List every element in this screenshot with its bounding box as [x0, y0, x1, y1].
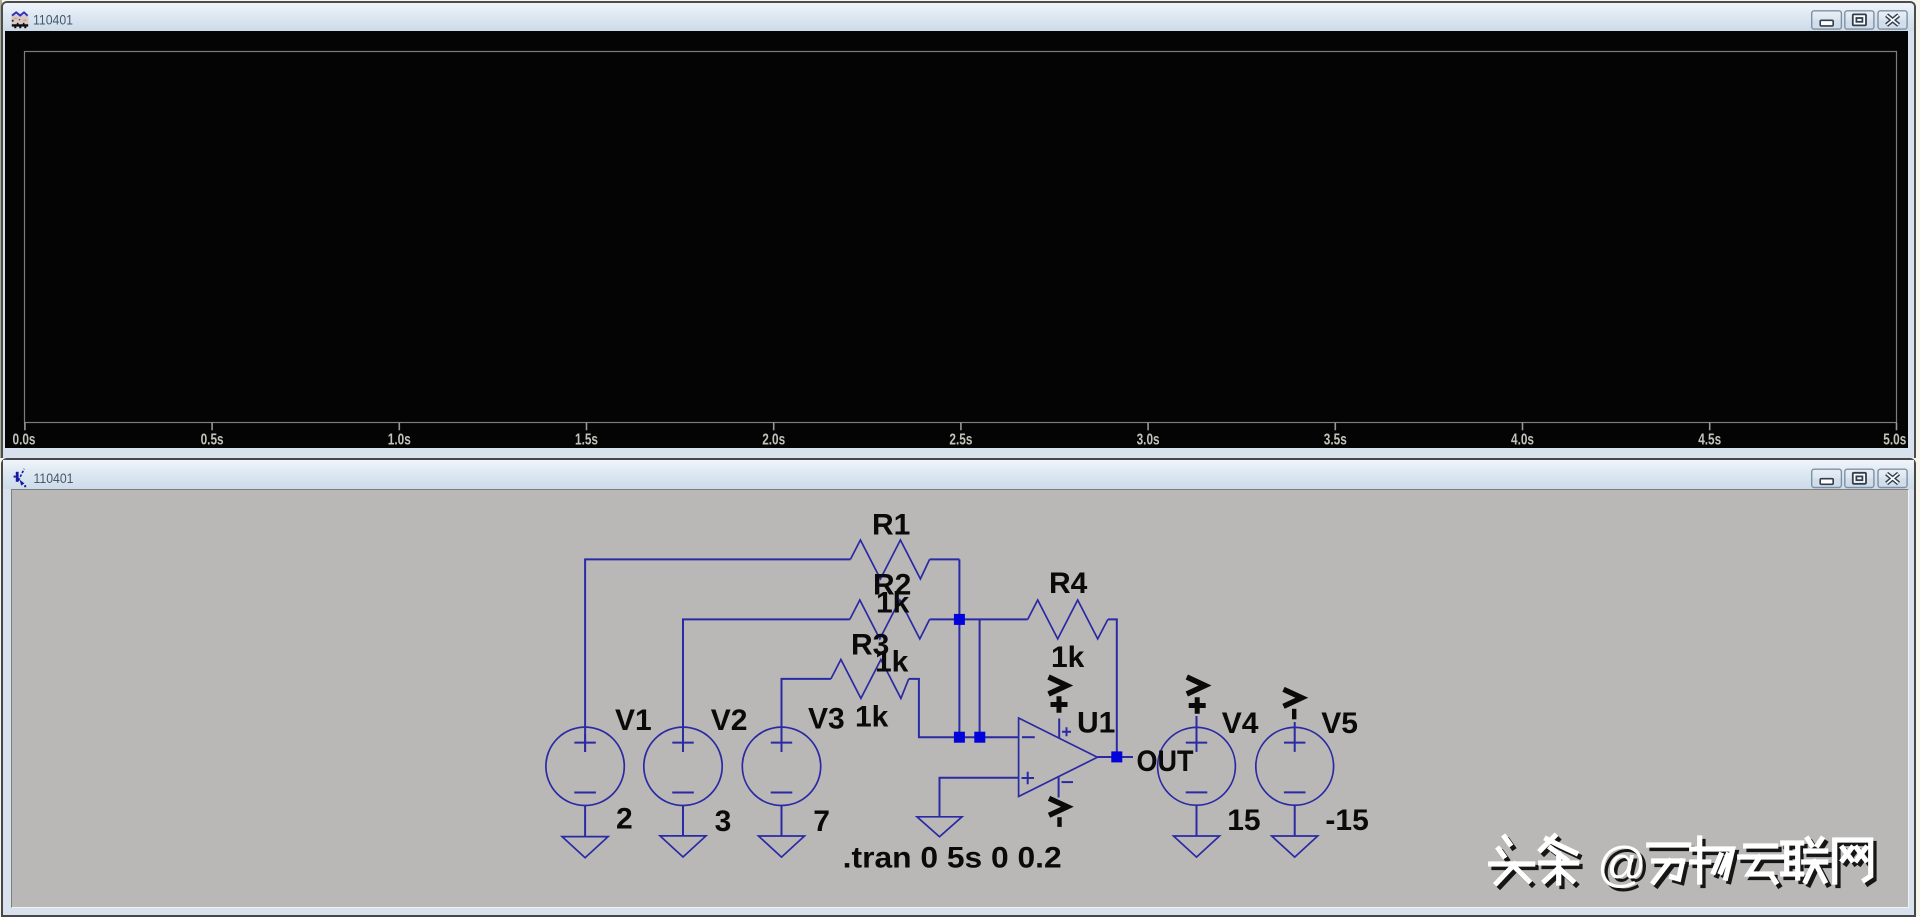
wire R1 node down to inverting node — [958, 559, 960, 737]
wire V5 bottom — [1294, 805, 1296, 836]
window W1 restore button — [1845, 11, 1874, 29]
window W1 title icon (waveform) — [12, 12, 29, 28]
resistor R1 — [850, 540, 929, 579]
voltage source V4 — [1158, 727, 1236, 805]
svg-text:15: 15 — [1227, 804, 1260, 837]
wire V4 bottom — [1196, 805, 1198, 836]
voltage source V2 — [644, 727, 722, 805]
svg-text:7: 7 — [813, 805, 830, 838]
svg-text:-15: -15 — [1325, 804, 1368, 837]
W2 title gradient — [3, 460, 1914, 489]
svg-text:U1: U1 — [1077, 706, 1115, 739]
svg-text:V4: V4 — [1222, 707, 1259, 740]
svg-text:3: 3 — [715, 805, 732, 838]
svg-text:V2: V2 — [711, 704, 748, 737]
ground below V4 — [1174, 836, 1220, 857]
svg-text:110401: 110401 — [33, 13, 73, 28]
window W2 close button — [1878, 469, 1907, 487]
svg-text:1k: 1k — [1051, 641, 1085, 674]
svg-text:.tran 0 5s 0 0.2: .tran 0 5s 0 0.2 — [843, 842, 1062, 875]
wire R4 right lead down to output — [1108, 619, 1117, 757]
left screen edge column — [0, 0, 2, 458]
wire V3 top to R3 — [782, 679, 831, 752]
window W2 restore button — [1845, 469, 1874, 487]
wire V1 top to R1 — [585, 559, 850, 752]
voltage source V5 — [1256, 727, 1334, 805]
net -V flag on op-amp V- pin — [1049, 798, 1067, 827]
svg-text:3.5s: 3.5s — [1324, 432, 1347, 449]
window W1 minimize button — [1812, 11, 1842, 29]
voltage source V1 — [546, 727, 624, 805]
wire R1 right lead — [930, 558, 960, 560]
wire op-amp noninverting input to ground — [940, 778, 1019, 817]
ground below V1 — [562, 837, 608, 858]
resistor R4 — [1028, 600, 1108, 639]
svg-text:5.0s: 5.0s — [1883, 432, 1906, 449]
op-amp U1 — [1019, 718, 1098, 798]
wire R4 left tap down to inverting node — [979, 619, 981, 737]
time axis ticks — [25, 423, 1897, 431]
svg-text:2.0s: 2.0s — [762, 432, 785, 449]
wire V3 bottom — [781, 806, 783, 837]
plot frame — [25, 52, 1897, 423]
ground below V2 — [660, 836, 706, 857]
svg-text:0.0s: 0.0s — [13, 432, 36, 449]
svg-text:@: @ — [1597, 838, 1647, 892]
svg-text:R4: R4 — [1049, 567, 1088, 600]
svg-text:110401: 110401 — [34, 471, 74, 486]
wire V4 top pin — [1196, 716, 1198, 734]
window W2 title icon (schematic symbol) — [14, 469, 27, 487]
wire op-amp output to OUT label — [1097, 756, 1133, 758]
W1 black client — [5, 31, 1908, 448]
svg-text:V3: V3 — [808, 702, 845, 735]
svg-text:1k: 1k — [855, 700, 889, 733]
window W1 close button — [1878, 11, 1907, 29]
ground below V5 — [1272, 836, 1318, 857]
W2 sunken schematic client — [11, 489, 1909, 909]
junction output node — [1111, 751, 1122, 762]
watermark 头条 @万物云联网 — [1491, 836, 1874, 896]
net -V flag on V5 — [1284, 689, 1302, 719]
svg-text:V1: V1 — [615, 704, 652, 737]
window W2 minimize button — [1812, 469, 1842, 487]
net +V flag on V4 — [1187, 677, 1206, 714]
net +V flag on op-amp V+ pin — [1049, 677, 1068, 713]
time axis labels — [13, 432, 1907, 449]
junction inverting node left — [954, 732, 965, 743]
svg-text:OUT: OUT — [1137, 745, 1194, 778]
junction inverting node right — [974, 732, 985, 743]
ground below op-amp noninverting input — [917, 817, 962, 837]
svg-text:R2: R2 — [873, 569, 911, 602]
svg-text:3.0s: 3.0s — [1137, 432, 1160, 449]
schematic window W2 — [1, 458, 1916, 917]
wire R3 right lead down to inverting node — [909, 679, 1019, 737]
svg-text:V5: V5 — [1321, 707, 1358, 740]
svg-text:4.5s: 4.5s — [1698, 432, 1721, 449]
wire node A to R4 left — [959, 618, 1027, 620]
wire V1 bottom — [584, 806, 586, 837]
wire R2 right lead to node A — [930, 618, 960, 620]
voltage source V3 — [742, 727, 820, 805]
svg-text:0.5s: 0.5s — [201, 432, 224, 449]
junction node A (R1/R2/R4) — [954, 614, 965, 625]
svg-text:R1: R1 — [872, 509, 910, 542]
wire V2 bottom — [682, 806, 684, 836]
ground below V3 — [759, 836, 805, 857]
resistor R3 — [831, 660, 909, 699]
svg-text:1.0s: 1.0s — [388, 432, 411, 449]
resistor R2 — [850, 600, 930, 639]
wire V2 top to R2 — [683, 619, 850, 752]
svg-text:1.5s: 1.5s — [575, 432, 598, 449]
svg-text:4.0s: 4.0s — [1511, 432, 1534, 449]
svg-text:2: 2 — [616, 802, 633, 835]
svg-text:2.5s: 2.5s — [949, 432, 972, 449]
svg-text:R3: R3 — [851, 628, 889, 661]
wire V5 top pin — [1294, 722, 1296, 734]
waveform window W1 — [1, 1, 1916, 459]
